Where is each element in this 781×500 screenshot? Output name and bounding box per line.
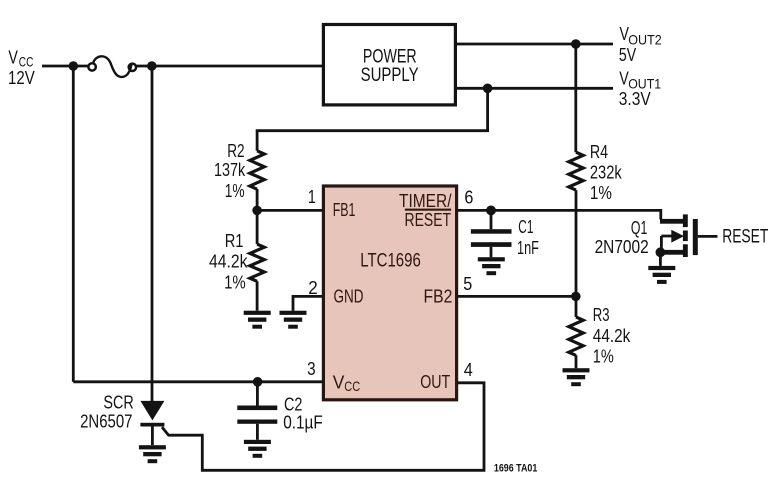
svg-text:C2: C2: [284, 394, 302, 414]
wire Vout1: [457, 87, 613, 90]
pin label Vcc: [333, 372, 360, 394]
pin label TIMER/RESET: [399, 191, 452, 230]
node Vout2 label: [619, 24, 662, 65]
wire FB2 pin5: [458, 295, 576, 298]
resistor R2: [250, 151, 264, 189]
IC U1 LTC1696 body: [323, 186, 456, 400]
svg-text:TIMER/: TIMER/: [399, 191, 452, 211]
resistor R3: [569, 296, 583, 368]
SCR 2N6507: [140, 401, 164, 445]
svg-text:6: 6: [464, 187, 473, 207]
svg-text:44.2k: 44.2k: [593, 326, 631, 346]
node Vcc 12V label: [8, 48, 35, 89]
svg-text:CC: CC: [19, 54, 34, 70]
wire Vcc lead: [42, 65, 88, 68]
label R2 137k 1%: [214, 141, 246, 201]
svg-text:1%: 1%: [225, 181, 245, 201]
power supply label: [361, 47, 419, 86]
svg-text:R2: R2: [227, 141, 244, 161]
svg-text:R3: R3: [593, 305, 610, 325]
ground R3: [563, 368, 590, 386]
ground Q1: [648, 266, 675, 284]
svg-text:1696 TA01: 1696 TA01: [494, 463, 537, 475]
transistor Q1 2N7002: [660, 214, 718, 266]
svg-text:R4: R4: [590, 142, 608, 162]
label C2 0.1uF: [283, 394, 323, 432]
label Q1 2N7002: [595, 218, 649, 257]
ground SCR: [139, 445, 166, 463]
junction node FB1: [252, 206, 262, 216]
svg-text:44.2k: 44.2k: [209, 251, 248, 271]
svg-text:C1: C1: [518, 217, 533, 237]
svg-text:1%: 1%: [593, 347, 614, 367]
svg-text:2N6507: 2N6507: [80, 412, 132, 432]
junction node Vout2: [571, 39, 581, 49]
junction node C1: [486, 206, 496, 216]
svg-text:232k: 232k: [590, 162, 623, 182]
junction node Vcc-A: [69, 61, 79, 71]
wire R4 to FB2 node: [575, 190, 578, 296]
svg-text:12V: 12V: [8, 68, 35, 88]
svg-text:3.3V: 3.3V: [619, 89, 651, 109]
svg-text:FB1: FB1: [333, 200, 356, 220]
wire GND pin2: [293, 296, 324, 310]
svg-text:Q1: Q1: [631, 218, 647, 238]
circuit breaker (fuse) on Vcc rail: [88, 56, 136, 77]
svg-text:RESET: RESET: [722, 226, 768, 247]
wire Vout2 to R4: [574, 44, 577, 152]
svg-text:3: 3: [307, 359, 316, 379]
wire Vcc rail down to SCR anode: [151, 66, 154, 402]
label R1 44.2k 1%: [209, 231, 248, 293]
svg-text:5: 5: [463, 274, 472, 294]
svg-text:V: V: [333, 372, 345, 392]
svg-text:0.1µF: 0.1µF: [283, 413, 323, 433]
wire fuse to power supply: [137, 65, 323, 68]
resistor R4: [569, 152, 583, 190]
ground pin2: [280, 311, 307, 329]
svg-text:137k: 137k: [214, 160, 246, 180]
svg-text:1nF: 1nF: [517, 238, 539, 258]
wire R2 to FB1 node: [256, 189, 259, 210]
label C1 1nF: [517, 217, 539, 258]
svg-text:2: 2: [308, 278, 318, 298]
ground R1: [244, 311, 271, 329]
power supply box: [323, 25, 455, 105]
svg-text:5V: 5V: [619, 45, 636, 65]
svg-text:GND: GND: [334, 287, 364, 307]
wire Vout1 to R2: [257, 88, 488, 151]
junction node Vcc-B: [147, 61, 157, 71]
wire Vcc pin3: [73, 380, 324, 383]
svg-text:4: 4: [464, 360, 473, 380]
wire TIMER/RESET pin6: [458, 210, 661, 219]
label R4 232k 1%: [590, 142, 623, 203]
svg-text:1: 1: [308, 187, 316, 207]
svg-text:OUT: OUT: [420, 372, 450, 392]
svg-text:1%: 1%: [224, 272, 246, 292]
svg-text:FB2: FB2: [424, 287, 453, 307]
svg-text:SUPPLY: SUPPLY: [361, 65, 419, 86]
svg-text:RESET: RESET: [405, 210, 452, 230]
junction node FB2/R3/R4: [571, 292, 581, 302]
svg-text:V: V: [8, 48, 18, 68]
wire OUT pin4 to SCR gate: [162, 383, 484, 471]
capacitor C2: [237, 382, 277, 440]
node Vout1 label: [619, 68, 661, 109]
wire FB1 pin1: [257, 209, 324, 212]
overline on RESET: [405, 209, 451, 211]
wire Vcc rail down to pin3: [72, 66, 75, 382]
resistor R1: [250, 210, 264, 310]
label R3 44.2k 1%: [593, 305, 631, 367]
svg-text:R1: R1: [225, 231, 244, 251]
capacitor C1: [471, 210, 512, 257]
wire Vout2: [457, 43, 613, 46]
svg-text:LTC1696: LTC1696: [360, 251, 421, 272]
svg-text:CC: CC: [344, 378, 360, 394]
svg-text:SCR: SCR: [103, 392, 133, 412]
junction node Vout1: [483, 84, 493, 94]
label SCR 2N6507: [80, 392, 134, 431]
ground C1: [478, 257, 505, 275]
ground C2: [244, 440, 271, 458]
junction node C2: [253, 377, 263, 387]
svg-text:1%: 1%: [590, 183, 612, 203]
svg-text:2N7002: 2N7002: [595, 237, 649, 257]
junction node Q1 source: [656, 247, 666, 257]
